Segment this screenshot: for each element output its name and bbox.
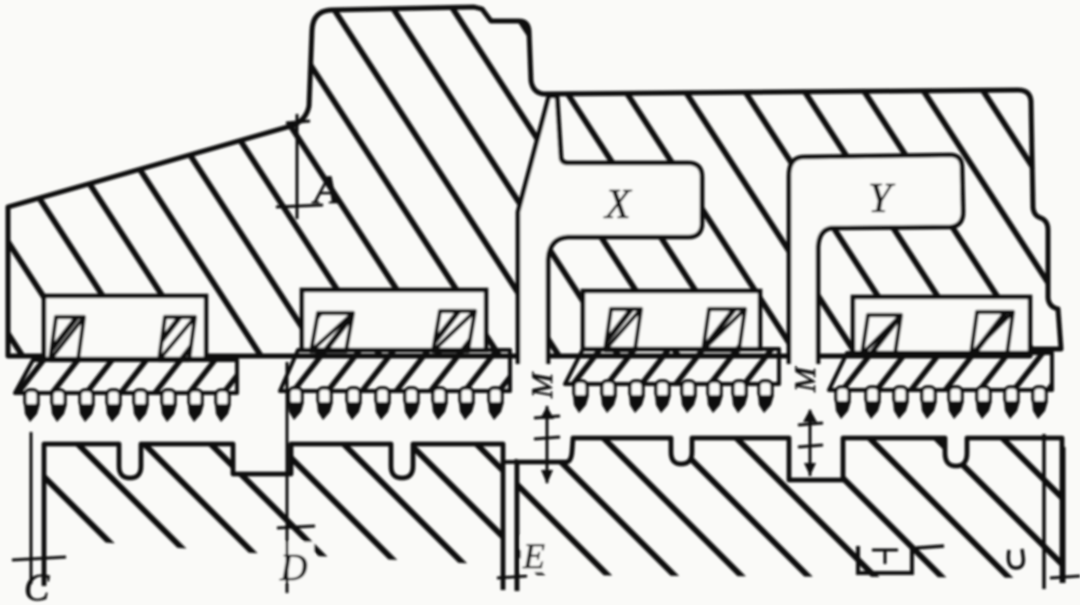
small u mark bottom right [1008, 549, 1023, 568]
seal tooth 4.3 [894, 387, 907, 404]
shaft left section (hatched) [44, 444, 503, 565]
seal tooth 4.7 [1005, 387, 1018, 404]
seal tooth 4.4 [922, 387, 935, 404]
seal tooth 3.5 [682, 381, 695, 398]
seal tooth 4.8 [1033, 387, 1046, 404]
seal ring root prong 6 [703, 309, 745, 350]
seal tooth 3.6 [708, 381, 721, 398]
seal tooth 3.3 [630, 381, 643, 398]
svg-text:E: E [522, 536, 545, 576]
seal tooth 2.7 [460, 388, 473, 405]
T-slot cavity 4 [853, 297, 1030, 353]
seal tooth 2.2 [318, 388, 331, 405]
seal ring root prong 5 [605, 309, 641, 350]
seal ring root prong 3 [311, 313, 353, 351]
svg-text:A: A [311, 167, 339, 212]
seal tooth 3.8 [759, 381, 772, 398]
shaft joint line far right [1063, 447, 1066, 583]
seal tooth 2.1 [289, 388, 302, 405]
shaft section line right [1042, 434, 1046, 589]
seal ring band 4 [829, 353, 1052, 390]
casing (hatched upper body) [8, 7, 1061, 356]
seal tooth 1.6 [162, 390, 175, 407]
seal tooth 4.1 [836, 387, 849, 404]
seal tooth 1.2 [52, 390, 65, 407]
seal tooth 1.5 [134, 390, 147, 407]
seal ring band 3 [565, 349, 779, 384]
shaft right section (hatched) [517, 438, 1064, 578]
svg-text:X: X [603, 182, 633, 228]
centerline D [286, 362, 289, 593]
seal tooth 1.3 [80, 390, 93, 407]
seal tooth 3.2 [602, 381, 615, 398]
seal ring band 1 [15, 360, 237, 393]
seal tooth 1.1 [25, 390, 38, 407]
seal tooth 1.7 [189, 390, 202, 407]
seal tooth 1.8 [216, 390, 229, 407]
T-slot cavity 2 [302, 290, 486, 350]
seal ring root prong 8 [971, 312, 1013, 354]
seal ring root prong 1 [50, 317, 84, 360]
seal tooth 4.2 [866, 387, 879, 404]
T-slot cavity 3 [583, 291, 760, 349]
recess Y (hook-shaped white cavity) [789, 155, 963, 364]
svg-text:M: M [789, 365, 822, 393]
seal tooth 2.3 [347, 388, 360, 405]
centerline C [30, 432, 33, 584]
seal tooth 4.6 [977, 387, 990, 404]
bracket mark bottom right [858, 546, 912, 573]
seal tooth 2.8 [489, 388, 502, 405]
seal tooth 3.1 [574, 381, 587, 398]
seal tooth 3.4 [656, 381, 669, 398]
svg-text:M: M [526, 371, 559, 399]
seal tooth 2.6 [433, 388, 446, 405]
seal tooth 1.4 [107, 390, 120, 407]
seal tooth 3.7 [733, 381, 746, 398]
centerline A [296, 114, 299, 219]
seal tooth 2.4 [376, 388, 389, 405]
seal ring root prong 7 [862, 315, 901, 354]
T-slot cavity 1 [44, 296, 206, 359]
seal ring root prong 4 [433, 311, 475, 351]
seal ring band 2 [280, 350, 510, 391]
recess X (hook-shaped white cavity) [518, 96, 702, 364]
seal ring root prong 2 [159, 317, 195, 360]
centerline E [515, 459, 518, 591]
seal tooth 4.5 [949, 387, 962, 404]
seal tooth 2.5 [405, 388, 418, 405]
svg-text:C: C [24, 567, 50, 605]
svg-text:D: D [279, 547, 307, 589]
